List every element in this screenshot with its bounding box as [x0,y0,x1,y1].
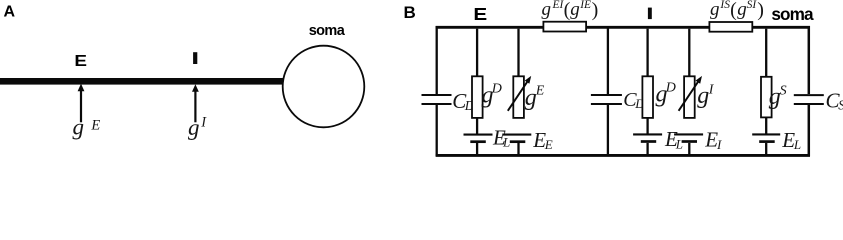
svg-text:S: S [838,97,843,112]
svg-text:): ) [592,0,599,21]
svg-text:g: g [697,83,709,109]
capacitor CS (soma, in right border) [794,26,824,156]
svg-text:(: ( [730,0,737,21]
svg-text:soma: soma [309,23,346,39]
svg-text:E: E [90,117,100,133]
dendrite (thick horizontal cable, panel A) [0,78,284,85]
svg-text:soma: soma [771,4,814,24]
svg-text:g: g [188,115,200,140]
svg-text:D: D [491,81,502,96]
resistor gS (soma) [761,29,772,134]
svg-text:IE: IE [579,0,591,11]
svg-text:S: S [780,84,787,99]
svg-text:L: L [793,137,801,152]
svg-text:E: E [544,137,553,152]
label gE (E compartment) [525,84,545,111]
label gI (panel A) [188,115,207,141]
soma circle [283,46,365,128]
coupling resistor gEI (in top rail) [543,22,586,32]
capacitor CD (I compartment, divider branch) [591,26,622,156]
label gD (E compartment) [482,81,502,108]
label EE (E compartment) [532,128,553,152]
wire: top rail [436,26,810,29]
svg-text:B: B [404,3,416,22]
label CD (E compartment) [452,89,475,113]
label gS (soma) [769,84,787,110]
svg-text:SI: SI [747,0,758,11]
svg-text:L: L [675,136,683,151]
battery EL (E compartment) [464,135,493,156]
label CD (I compartment) [623,89,645,111]
svg-text:EI: EI [552,0,565,11]
synaptic input arrow gI (panel A) [192,84,199,122]
node I label (panel B) [648,8,652,20]
svg-text:g: g [570,0,580,20]
svg-text:L: L [502,135,510,150]
battery EL (I compartment) [633,134,662,156]
resistor gD (I compartment) [642,29,653,134]
label EL (I compartment) [664,127,683,151]
label CS (soma) [826,88,843,112]
svg-text:g: g [73,114,85,139]
label EL (E compartment) [492,125,510,149]
battery EL (soma) [752,134,780,156]
label gD (I compartment) [656,81,676,108]
wire: bottom rail [436,154,810,157]
svg-text:IS: IS [719,0,730,11]
synaptic input arrow gE (panel A) [78,84,85,123]
battery EI (I compartment) [674,134,703,156]
label EL (soma) [781,128,801,152]
svg-text:E: E [535,84,545,99]
label gE (panel A) [73,114,101,139]
label EI (I compartment) [704,128,722,152]
svg-text:A: A [4,4,16,21]
svg-text:E: E [473,4,487,24]
battery EE (E compartment) [502,135,531,156]
svg-text:g: g [710,0,720,20]
node I label (panel A) [193,52,197,64]
variable resistor gE (E compartment) [508,29,534,118]
svg-text:g: g [737,0,747,20]
capacitor CD (E compartment, in left border) [422,26,452,156]
label gIS(gSI) [710,0,764,21]
svg-text:D: D [665,81,676,96]
label gI (I compartment) [697,82,715,109]
variable resistor gI (I compartment) [679,29,705,118]
svg-text:I: I [716,137,722,152]
svg-text:E: E [74,53,87,70]
svg-text:g: g [542,0,552,20]
label gEI(gIE) [542,0,599,21]
svg-text:): ) [757,0,764,21]
coupling resistor gIS (in top rail) [709,22,752,32]
resistor gD (E compartment) [472,29,483,134]
